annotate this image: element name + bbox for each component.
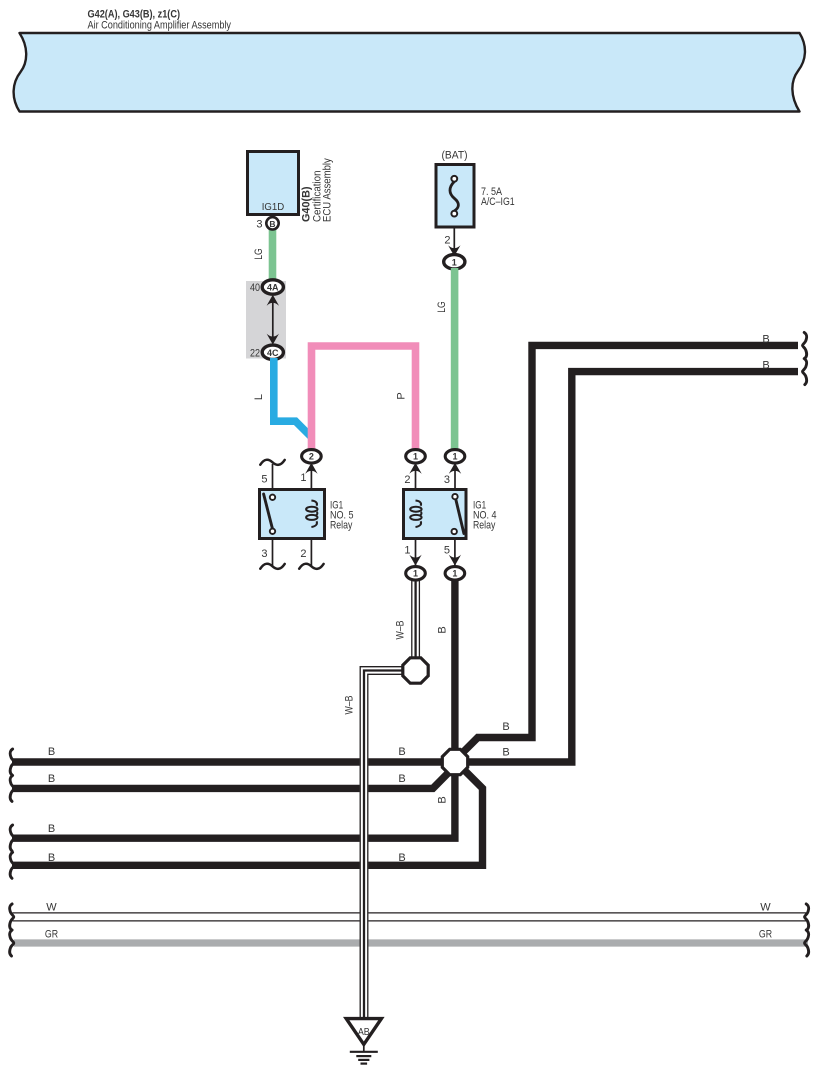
svg-text:4A: 4A	[267, 283, 279, 293]
coil	[410, 501, 421, 528]
pin 1 lead	[415, 527, 417, 570]
svg-text:3: 3	[444, 474, 450, 486]
switch contacts	[452, 494, 457, 499]
wire GR (bottom)	[14, 939, 808, 946]
wire W-B (relay4 pin1 to octagon)	[412, 578, 420, 660]
svg-text:B: B	[502, 747, 509, 759]
ECU box G40(B) IG1D	[248, 152, 299, 215]
svg-text:LG: LG	[253, 248, 265, 260]
ground AB	[346, 1019, 381, 1045]
connector oval 1 (pin1 bottom)	[406, 567, 426, 580]
svg-text:3: 3	[256, 219, 262, 231]
svg-text:B: B	[762, 360, 769, 372]
pin 2 lead + break	[310, 527, 312, 566]
svg-text:B: B	[398, 852, 405, 864]
svg-text:4C: 4C	[267, 348, 279, 358]
relay box	[404, 490, 467, 539]
svg-text:1: 1	[404, 545, 410, 557]
svg-text:B: B	[48, 852, 55, 864]
svg-text:5: 5	[444, 545, 450, 557]
svg-text:GR: GR	[45, 929, 58, 941]
coil	[306, 501, 317, 528]
break left GR	[10, 930, 14, 956]
svg-text:B: B	[398, 746, 405, 758]
pin 1 lead	[310, 458, 312, 501]
arrows into bottom ovals	[409, 555, 421, 566]
svg-text:5: 5	[261, 474, 267, 486]
connector 1 below fuse	[444, 255, 465, 269]
wire B (top right upper)	[462, 345, 799, 753]
break left line1	[10, 749, 14, 775]
pin 5 lead + break	[272, 464, 274, 497]
svg-text:B: B	[437, 626, 449, 633]
wire B line4 (junction diagonal, down, then left)	[12, 769, 483, 866]
fuse element	[450, 182, 458, 212]
connector 4C	[262, 345, 283, 359]
pin 2 lead	[415, 458, 417, 501]
break top right 2	[803, 359, 807, 385]
fuse box	[436, 165, 474, 228]
wire P (pink)	[312, 346, 416, 452]
wire L (blue)	[274, 358, 311, 437]
svg-text:1: 1	[452, 257, 457, 267]
wire B line1 (left to junction)	[12, 758, 455, 765]
svg-text:B: B	[502, 721, 509, 733]
connector oval 1 (pin5 bottom)	[445, 567, 465, 580]
double arrow between 4A and 4C	[272, 298, 274, 341]
svg-text:A/C–IG1: A/C–IG1	[481, 196, 515, 208]
fuse pin 2 wire	[453, 226, 455, 252]
junction octagon (W-B)	[403, 658, 428, 683]
break left line2	[10, 775, 14, 801]
svg-text:GR: GR	[759, 929, 772, 941]
connector 4A	[262, 280, 283, 294]
svg-text:B: B	[48, 823, 55, 835]
svg-text:Relay: Relay	[330, 520, 353, 532]
svg-text:LG: LG	[436, 301, 448, 313]
svg-text:W–B: W–B	[395, 621, 407, 640]
svg-text:B: B	[762, 334, 769, 346]
arrow into oval 2	[305, 463, 317, 474]
switch contacts	[270, 495, 275, 500]
svg-text:Air Conditioning Amplifier Ass: Air Conditioning Amplifier Assembly	[88, 20, 232, 32]
svg-text:40: 40	[250, 282, 260, 294]
svg-text:W: W	[760, 902, 771, 914]
connector oval 2	[302, 450, 322, 463]
svg-text:L: L	[253, 394, 265, 400]
svg-text:1: 1	[452, 452, 457, 462]
svg-text:2: 2	[444, 235, 450, 247]
svg-text:IG1D: IG1D	[262, 201, 285, 213]
wire LG from pin B to connector	[269, 228, 277, 284]
svg-text:B: B	[398, 773, 405, 785]
wire B (top right lower)	[455, 372, 798, 762]
svg-text:1: 1	[413, 569, 418, 579]
pin 5 lead	[454, 531, 456, 570]
label G40(B) Certification ECU Assembly (vertical)	[301, 158, 334, 222]
svg-text:1: 1	[413, 452, 418, 462]
svg-text:1: 1	[452, 569, 457, 579]
svg-text:B: B	[437, 796, 449, 803]
svg-text:W: W	[46, 902, 57, 914]
svg-text:AB: AB	[358, 1026, 370, 1038]
svg-text:B: B	[269, 219, 275, 229]
wire B line2 (left, diagonal to junction)	[12, 773, 448, 788]
svg-text:W–B: W–B	[344, 696, 356, 715]
svg-text:22: 22	[250, 347, 260, 359]
break left line4	[10, 852, 14, 878]
svg-text:2: 2	[309, 452, 314, 462]
svg-text:ECU Assembly: ECU Assembly	[322, 158, 334, 222]
wire B relay4 pin5 down to junction	[451, 578, 458, 762]
band: Air Conditioning Amplifier Assembly (torn ribbon)	[14, 33, 805, 112]
relay box	[260, 490, 325, 539]
svg-text:(BAT): (BAT)	[442, 150, 468, 162]
switch blade	[456, 499, 464, 534]
svg-text:2: 2	[300, 548, 306, 560]
break top right 1	[803, 332, 807, 358]
arrow into connector 1	[448, 245, 460, 256]
pin 3 lead + break	[272, 531, 274, 566]
svg-text:P: P	[396, 392, 408, 399]
junction octagon (B)	[442, 749, 467, 774]
pin 3 circle B	[266, 217, 278, 229]
connector oval 1 (pin2)	[406, 450, 426, 463]
break right GR	[805, 930, 809, 956]
connector shield box (gray)	[246, 281, 286, 359]
wire W-B (octagon left then down to ground)	[360, 667, 404, 1018]
svg-text:Relay: Relay	[473, 520, 496, 532]
wire LG (fuse to relay)	[451, 268, 459, 451]
svg-text:1: 1	[300, 472, 306, 484]
svg-text:B: B	[48, 746, 55, 758]
switch blade	[264, 494, 273, 531]
svg-text:B: B	[48, 773, 55, 785]
connector oval 1 (pin3)	[445, 450, 465, 463]
svg-text:3: 3	[261, 548, 267, 560]
arrows into top ovals	[409, 463, 421, 474]
break left W	[10, 904, 14, 930]
wire B line3 (junction down, then left)	[12, 761, 455, 838]
break left line3	[10, 825, 14, 851]
svg-text:2: 2	[404, 474, 410, 486]
pin 3 lead	[454, 458, 456, 497]
wire W (bottom)	[13, 912, 807, 914]
break right W	[805, 904, 809, 930]
